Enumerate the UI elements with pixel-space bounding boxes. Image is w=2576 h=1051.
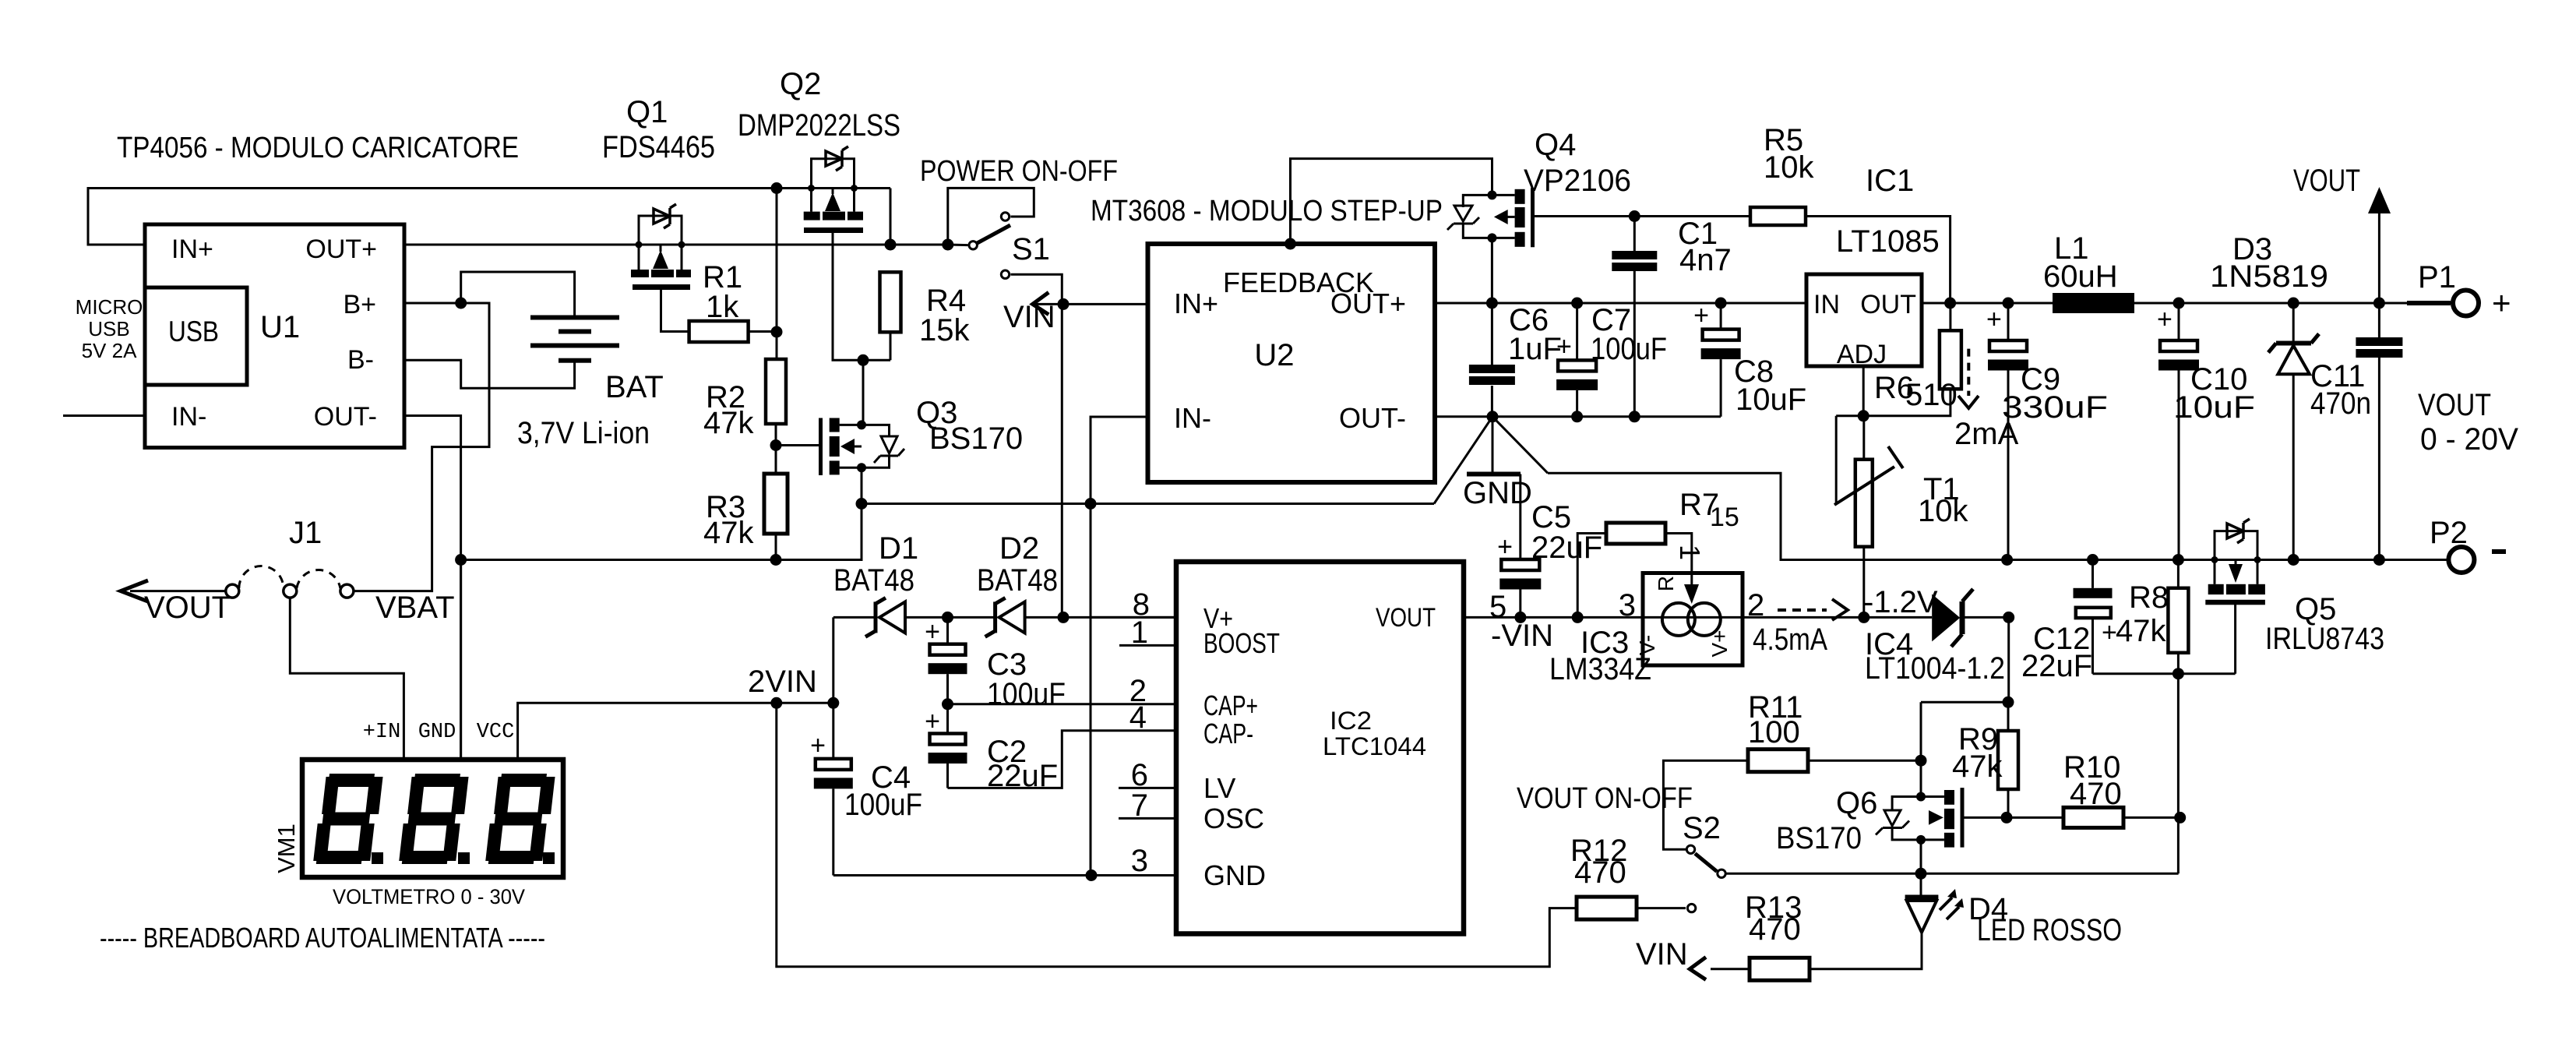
- svg-text:Q1: Q1: [626, 95, 668, 129]
- svg-text:B-: B-: [347, 345, 374, 375]
- svg-text:BOOST: BOOST: [1203, 627, 1280, 659]
- svg-text:POWER ON-OFF: POWER ON-OFF: [920, 155, 1118, 188]
- wire Q6 source down: [1920, 840, 1922, 873]
- connector J1 pads: [226, 584, 239, 598]
- svg-text:V+: V+: [1707, 630, 1732, 657]
- svg-text:1k: 1k: [706, 290, 739, 324]
- capacitor C6: [1491, 303, 1493, 365]
- module U2 MT3608 box: [1148, 244, 1436, 482]
- svg-text:USB: USB: [168, 316, 219, 347]
- switch S2 upper contact: [1686, 845, 1694, 853]
- svg-text:CAP-: CAP-: [1203, 718, 1253, 749]
- wire C12/R8/Q5gate row: [2093, 672, 2236, 675]
- 7-segment digit 1: [313, 774, 383, 864]
- capacitor C9: [2007, 303, 2010, 340]
- svg-text:47k: 47k: [703, 516, 754, 550]
- svg-text:2VIN: 2VIN: [748, 665, 817, 699]
- wire B+ pin: [404, 302, 491, 305]
- 7-segment digit 2: [399, 774, 469, 864]
- node R11 Q6: [1915, 755, 1927, 767]
- wire VBAT link from B+: [354, 303, 489, 591]
- wire Q5gate column: [2177, 674, 2180, 874]
- svg-text:1: 1: [1131, 615, 1148, 650]
- node IC1 OUT R5/R6: [1944, 298, 1956, 309]
- svg-text:BAT48: BAT48: [833, 563, 914, 598]
- svg-text:7: 7: [1131, 788, 1148, 823]
- wire D1 anode drop: [832, 617, 834, 703]
- wire D2 to IC2 pin8: [1025, 616, 1176, 619]
- svg-text:MT3608 - MODULO STEP-UP: MT3608 - MODULO STEP-UP: [1091, 195, 1443, 227]
- transistor Q1 FDS4465: [639, 216, 682, 245]
- node R4 top: [885, 239, 897, 251]
- resistor R3: [764, 474, 788, 534]
- svg-text:VP2106: VP2106: [1524, 164, 1631, 198]
- node C5 bottom: [1514, 612, 1526, 623]
- decimal point 1: [372, 852, 383, 864]
- wire VM1 GND pin: [460, 560, 462, 760]
- svg-text:IN-: IN-: [1174, 402, 1211, 434]
- svg-text:FDS4465: FDS4465: [602, 130, 715, 164]
- node IC4 cathode: [2003, 612, 2014, 623]
- svg-text:LV: LV: [1203, 772, 1235, 804]
- svg-text:+: +: [2157, 305, 2173, 334]
- node Q3 GND rail: [856, 498, 868, 510]
- pin 6 stub LV: [1119, 787, 1176, 789]
- svg-text:330uF: 330uF: [2002, 390, 2108, 425]
- wire Q1 gate to R1: [661, 290, 689, 332]
- svg-text:OUT+: OUT+: [1330, 287, 1406, 319]
- svg-text:BS170: BS170: [1776, 821, 1862, 855]
- wire R12 to contact: [1637, 907, 1686, 909]
- pin 7 stub OSC: [1119, 817, 1176, 820]
- switch S2 common contact: [1718, 869, 1725, 877]
- svg-text:P2: P2: [2430, 516, 2468, 550]
- node Q6 source rail: [1915, 868, 1927, 880]
- wire pin3 GND row: [833, 874, 1176, 876]
- svg-text:3: 3: [1619, 588, 1636, 622]
- svg-text:B+: B+: [343, 290, 376, 319]
- transistor Q3 BS170: [819, 418, 823, 476]
- svg-text:VIN: VIN: [1636, 937, 1688, 972]
- node R9 top: [2003, 697, 2014, 708]
- wire top bus drop to OUT+ bus: [890, 189, 892, 245]
- wire GND diagonal right: [1492, 417, 1548, 474]
- svg-text:470: 470: [2070, 777, 2122, 811]
- transistor Q5 IRLU8743: [2211, 556, 2218, 563]
- svg-text:+: +: [1986, 305, 2002, 334]
- capacitor C11: [2378, 303, 2380, 337]
- wire R13 to VIN arrow: [1711, 968, 1750, 970]
- node C6 top: [1486, 298, 1498, 309]
- node top bus / R1R2 column: [771, 182, 783, 194]
- node gate Q3: [770, 439, 782, 451]
- svg-text:U2: U2: [1254, 338, 1294, 372]
- node D3 top: [2288, 298, 2299, 309]
- resistor R7 loop: [1577, 534, 1606, 618]
- node VIN junction: [1058, 298, 1070, 310]
- svg-text:VIN: VIN: [1003, 300, 1055, 334]
- diode D3 1N5819: [2292, 303, 2295, 341]
- svg-text:10k: 10k: [1918, 494, 1968, 528]
- resistor R12: [1577, 897, 1637, 919]
- svg-text:+IN: +IN: [363, 721, 401, 744]
- svg-text:22uF: 22uF: [2021, 649, 2092, 683]
- capacitor C7: [1576, 303, 1578, 360]
- wire 2VIN rail to R12: [777, 703, 1577, 966]
- capacitor C2: [946, 704, 949, 734]
- svg-text:22uF: 22uF: [1531, 531, 1602, 565]
- wire IN+ loop to top bus: [88, 189, 890, 245]
- terminal P1: [2407, 301, 2451, 305]
- wire D1 to D2: [905, 616, 994, 619]
- wire R1 to column: [749, 330, 777, 333]
- wire VIN column down: [1061, 304, 1063, 617]
- svg-text:100uF: 100uF: [844, 788, 922, 822]
- wire gate Q3 row: [776, 444, 819, 446]
- wire VIN to U2 IN+: [1063, 303, 1148, 305]
- svg-text:OUT: OUT: [1860, 290, 1916, 319]
- switch S2 blade: [1695, 854, 1717, 872]
- wire R3 bottom: [775, 534, 777, 560]
- node C9 bottom: [2001, 554, 2013, 566]
- capacitor C1: [1633, 217, 1636, 252]
- wire R2 to R3: [775, 424, 777, 474]
- svg-text:J1: J1: [289, 516, 322, 550]
- resistor R6: [1949, 303, 1951, 330]
- svg-text:OSC: OSC: [1203, 802, 1264, 834]
- wire ADJ stub: [1862, 366, 1865, 416]
- node R9 bottom gate: [2001, 812, 2013, 824]
- wire IC1 OUT row: [1922, 302, 2453, 305]
- svg-text:BAT48: BAT48: [977, 563, 1058, 598]
- node R8 bottom: [2173, 668, 2184, 679]
- node C9 top: [2003, 298, 2014, 309]
- svg-text:+: +: [810, 731, 826, 760]
- node VIN to V+: [1058, 612, 1070, 623]
- node T1 bottom -1.2V: [1858, 612, 1869, 623]
- svg-text:TP4056 - MODULO CARICATORE: TP4056 - MODULO CARICATORE: [117, 132, 519, 164]
- svg-text:LT1085: LT1085: [1836, 224, 1940, 259]
- svg-text:VOUT: VOUT: [2293, 164, 2360, 198]
- node C8 top: [1715, 298, 1727, 309]
- USB connector box: [145, 287, 247, 385]
- current source IC3 LM334Z box: [1643, 616, 1743, 619]
- wire GND diagonal left: [1434, 417, 1492, 504]
- svg-text:VOUT: VOUT: [1376, 603, 1436, 633]
- terminal P2: [2448, 547, 2474, 573]
- svg-text:VOUT: VOUT: [2418, 388, 2491, 422]
- node R7 tap: [1572, 612, 1584, 623]
- switch S1 lower contact: [1001, 270, 1009, 278]
- resistor R9: [2007, 702, 2010, 731]
- wire feedback loop to Q4 gate: [1291, 159, 1492, 244]
- node C1 top: [1629, 210, 1640, 222]
- wire R5 to IC1 OUT: [1806, 217, 1951, 304]
- node GND main: [1487, 411, 1499, 422]
- label minus P2: [2492, 549, 2506, 554]
- wire IC2 VOUT to -VIN row: [1464, 616, 1643, 619]
- wire U2 OUT+ row to IC1 IN: [1435, 302, 1806, 305]
- wire VM1 VCC pin to 2VIN bus: [518, 703, 833, 760]
- wire Q6 column: [1920, 702, 1922, 796]
- svg-text:IC1: IC1: [1866, 164, 1914, 198]
- svg-text:+: +: [1693, 301, 1709, 330]
- svg-text:470: 470: [1574, 855, 1626, 890]
- wire CAP- path pin4: [948, 731, 1177, 788]
- wire R10 right: [2123, 816, 2180, 819]
- wire pin8 stub: [1091, 616, 1176, 619]
- node pin3 gnd: [1086, 869, 1098, 881]
- svg-text:4: 4: [1129, 700, 1147, 735]
- node C3 top: [942, 612, 953, 623]
- node D3 bottom: [2288, 554, 2299, 566]
- transistor Q6 BS170: [1916, 792, 1926, 802]
- svg-text:100uF: 100uF: [987, 677, 1066, 711]
- inductor L1: [2053, 293, 2134, 313]
- wire column R2: [776, 189, 778, 360]
- svg-text:+: +: [1497, 532, 1513, 562]
- svg-text:15k: 15k: [919, 313, 970, 347]
- svg-text:10k: 10k: [1764, 150, 1814, 185]
- wire OUT- down to GND bus: [404, 416, 461, 760]
- svg-text:ADJ: ADJ: [1837, 340, 1887, 369]
- switch S1 blade: [948, 244, 968, 247]
- svg-text:4n7: 4n7: [1679, 243, 1732, 277]
- transistor Q2 DMP2022LSS: [812, 159, 855, 189]
- node C12 top: [2087, 554, 2099, 566]
- node R1/R2 junction: [771, 326, 783, 338]
- svg-text:IRLU8743: IRLU8743: [2265, 622, 2384, 656]
- svg-text:CAP+: CAP+: [1203, 689, 1258, 721]
- svg-text:470: 470: [1749, 912, 1801, 947]
- node R8 top: [2173, 554, 2184, 566]
- decimal point 2: [458, 852, 470, 864]
- node C3 bottom CAP+: [942, 698, 953, 710]
- svg-text:60uH: 60uH: [2043, 259, 2118, 294]
- svg-text:Q4: Q4: [1535, 128, 1576, 162]
- svg-text:4.5mA: 4.5mA: [1753, 622, 1827, 657]
- svg-text:LED ROSSO: LED ROSSO: [1977, 913, 2122, 947]
- node C11 bottom: [2373, 554, 2385, 566]
- node C7 bottom: [1571, 411, 1583, 422]
- svg-text:100uF: 100uF: [1591, 332, 1667, 366]
- svg-text:+: +: [2492, 284, 2511, 321]
- svg-text:OUT+: OUT+: [305, 235, 377, 264]
- svg-text:LTC1044: LTC1044: [1323, 732, 1426, 760]
- node Q2 gate / R4 / Q3 drain: [858, 354, 869, 366]
- svg-text:IN+: IN+: [1174, 287, 1218, 319]
- resistor R10: [2063, 807, 2123, 827]
- wire U2 IN- to GND rail: [1091, 417, 1148, 876]
- node S1 on OUT+ bus: [942, 239, 953, 251]
- svg-text:IC2: IC2: [1330, 707, 1372, 735]
- trimmer T1 10k: [1835, 416, 1838, 503]
- svg-text:C5: C5: [1531, 500, 1571, 534]
- zener Q3 body: [862, 425, 890, 436]
- node C1 bottom: [1629, 411, 1640, 422]
- svg-text:15: 15: [1710, 503, 1739, 532]
- node 2VIN bus: [770, 697, 782, 709]
- label VIN arrow: [1033, 292, 1049, 314]
- switch S1 fixed contact: [1001, 213, 1009, 220]
- regulator IC1 LT1085 box: [1806, 274, 1922, 366]
- svg-text:DMP2022LSS: DMP2022LSS: [738, 108, 900, 143]
- svg-text:3,7V Li-ion: 3,7V Li-ion: [517, 416, 650, 450]
- wire bracket to Q6 column: [1921, 701, 2009, 704]
- node feedback tap: [1284, 238, 1296, 250]
- node C7 top: [1571, 298, 1583, 309]
- node C10 top: [2173, 298, 2185, 309]
- svg-text:100: 100: [1748, 715, 1800, 749]
- wire VOUT arrow at J1: [130, 590, 226, 592]
- wire U2 OUT- row: [1435, 415, 1721, 418]
- wire Q2 gate down: [833, 233, 890, 360]
- pin 1 stub BOOST: [1119, 644, 1176, 647]
- resistor R13: [1750, 958, 1810, 980]
- capacitor C12: [2091, 560, 2094, 588]
- svg-text:0 - 20V: 0 - 20V: [2420, 422, 2518, 457]
- svg-text:470n: 470n: [2310, 386, 2371, 421]
- svg-text:1uF: 1uF: [1508, 332, 1562, 366]
- wire GND rail under U2: [862, 503, 1434, 505]
- svg-text:USB: USB: [88, 317, 129, 340]
- svg-text:3: 3: [1131, 844, 1148, 878]
- node C4 / D1 anode junction: [827, 697, 839, 709]
- svg-text:P1: P1: [2418, 260, 2456, 294]
- svg-text:LT1004-1.2: LT1004-1.2: [1865, 651, 2005, 686]
- wire B- to battery negative: [404, 360, 575, 388]
- current arrow 2mA: [1967, 349, 1970, 396]
- resistor R4: [880, 272, 901, 332]
- svg-text:10uF: 10uF: [2173, 390, 2255, 425]
- wire GND rail right: [1548, 473, 2448, 559]
- wire S2 rail to Q5 column: [1727, 873, 2179, 875]
- svg-text:6: 6: [1131, 758, 1148, 792]
- svg-text:1N5819: 1N5819: [2210, 259, 2328, 294]
- battery BAT symbol: [530, 316, 619, 320]
- svg-text:BAT: BAT: [605, 370, 664, 404]
- svg-text:D2: D2: [999, 531, 1039, 566]
- wire D4 to R13 row: [1810, 933, 1922, 969]
- capacitor C10: [2178, 303, 2180, 340]
- wire R4 bottom: [890, 332, 892, 360]
- wire Q5 gate stub: [2234, 604, 2236, 674]
- svg-text:----- BREADBOARD AUTOALIMENTAT: ----- BREADBOARD AUTOALIMENTATA -----: [100, 922, 545, 954]
- svg-text:-1.2V: -1.2V: [1863, 585, 1938, 619]
- resistor R5: [1750, 207, 1806, 225]
- wire S1 bracket: [948, 188, 1034, 245]
- node B+ battery junction: [455, 298, 467, 309]
- svg-text:LM334Z: LM334Z: [1549, 652, 1651, 686]
- jumper dashed arcs: [239, 566, 284, 589]
- capacitor C4: [832, 703, 834, 759]
- svg-text:BS170: BS170: [929, 421, 1023, 456]
- svg-text:R: R: [1654, 576, 1678, 591]
- wire OUT+ bus: [404, 244, 948, 246]
- node VOUT column: [2373, 298, 2385, 309]
- wire Q4 source to OUT+ row: [1491, 238, 1493, 303]
- resistor R11: [1808, 760, 1921, 762]
- svg-text:GND: GND: [1463, 476, 1532, 510]
- svg-text:510: 510: [1905, 378, 1958, 412]
- contact R12 open: [1687, 904, 1695, 912]
- wire IC4 node down to bracket: [2007, 617, 2010, 702]
- svg-text:IN: IN: [1813, 290, 1840, 319]
- svg-text:Q2: Q2: [780, 67, 821, 101]
- transistor Q4 VP2106: [1488, 190, 1497, 199]
- svg-text:VM1: VM1: [273, 824, 300, 873]
- svg-text:GND: GND: [1203, 859, 1266, 891]
- svg-text:R8: R8: [2129, 580, 2169, 615]
- svg-text:VCC: VCC: [477, 721, 515, 744]
- wire J1 middle to VM1 +IN: [290, 598, 403, 760]
- wire battery positive loop: [461, 272, 575, 316]
- wire CAP+ row pin2: [948, 703, 1177, 705]
- svg-text:1: 1: [1674, 545, 1706, 560]
- wire IN- stub: [63, 414, 145, 417]
- node VBAT/GND bus at VM1: [455, 554, 467, 566]
- capacitor C8: [1720, 303, 1722, 330]
- dashed current arrow: [1778, 608, 1827, 612]
- svg-text:S1: S1: [1012, 232, 1050, 266]
- svg-text:47k: 47k: [703, 406, 754, 440]
- led D4 LED ROSSO: [1920, 873, 1922, 896]
- svg-text:Q6: Q6: [1836, 786, 1877, 820]
- svg-text:MICRO: MICRO: [76, 295, 143, 319]
- IC3 pin1 arrow: [1690, 573, 1693, 594]
- node IN- GND rail: [1085, 498, 1097, 510]
- zener IC4 LT1004-1.2: [1864, 616, 1932, 619]
- wire Q3 drain column: [862, 360, 865, 425]
- wire Q3 node to VBAT bus: [461, 504, 862, 560]
- voltmeter VM1 display box: [302, 760, 563, 877]
- svg-text:U1: U1: [260, 310, 300, 344]
- svg-text:IN-: IN-: [171, 402, 206, 432]
- wire S1 to VIN node: [1011, 274, 1062, 304]
- Q4 channel: [1492, 194, 1515, 196]
- svg-text:VOUT ON-OFF: VOUT ON-OFF: [1517, 782, 1693, 815]
- zener Q6 gate protection: [1892, 797, 1921, 811]
- svg-text:+: +: [925, 617, 940, 647]
- svg-text:GND: GND: [418, 721, 456, 744]
- svg-text:47k: 47k: [1952, 749, 2003, 784]
- resistor R2: [766, 359, 786, 424]
- decimal point 3: [543, 852, 555, 864]
- wire Q4 drain row to R5: [1533, 215, 1751, 217]
- ic IC2 LTC1044 box: [1176, 562, 1464, 934]
- wire IC3 pin2 row: [1743, 616, 1864, 619]
- capacitor C5: [1519, 474, 1521, 560]
- node R3 GND bus: [770, 554, 782, 566]
- resistor R8: [2177, 560, 2180, 588]
- node ADJ: [1858, 410, 1869, 421]
- wire Q3 source to GND rail: [861, 467, 863, 503]
- svg-text:OUT-: OUT-: [1339, 402, 1406, 434]
- svg-text:D1: D1: [879, 531, 918, 566]
- resistor R1: [689, 321, 749, 342]
- svg-text:47k: 47k: [2116, 614, 2166, 648]
- svg-text:VOUT: VOUT: [144, 591, 231, 625]
- svg-text:10uF: 10uF: [1736, 383, 1806, 417]
- 7-segment digit 3: [485, 774, 555, 864]
- wire D1 row left: [833, 616, 874, 619]
- capacitor C3: [946, 617, 949, 644]
- diode D1 BAT48: [874, 601, 878, 633]
- diode D2 BAT48: [993, 601, 997, 633]
- svg-text:VBAT: VBAT: [375, 591, 455, 625]
- wire R11 to S2: [1663, 760, 1748, 849]
- VOUT arrow top: [2378, 207, 2380, 303]
